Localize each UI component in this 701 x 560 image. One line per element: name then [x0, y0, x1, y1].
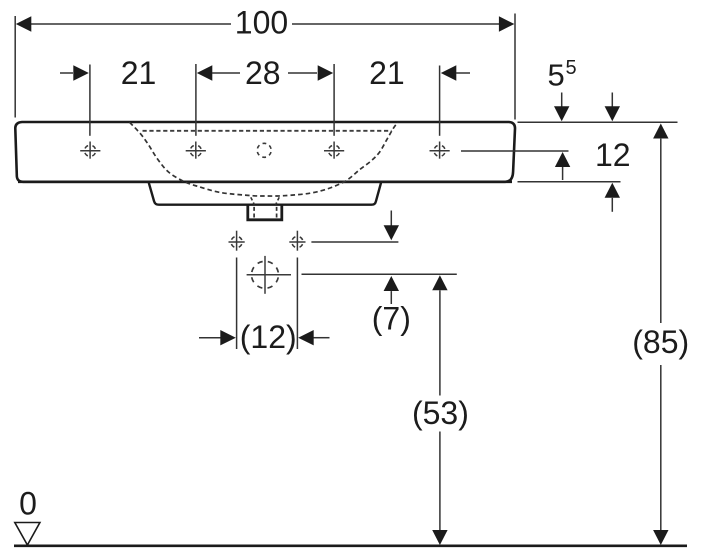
svg-text:28: 28	[245, 55, 281, 91]
svg-text:100: 100	[235, 5, 288, 41]
floor datum triangle	[15, 523, 40, 546]
dim 21 left: outside arrow	[60, 72, 73, 74]
svg-text:(7): (7)	[372, 301, 411, 337]
dimension 100: left arrowhead	[16, 16, 31, 31]
dimension 100: extension line left	[14, 16, 16, 118]
basin bottom edge (slab underside full width)	[18, 181, 512, 184]
dim 28: right arrow	[288, 72, 317, 74]
dashed drain funnel right	[276, 197, 280, 204]
svg-text:0: 0	[19, 486, 37, 522]
svg-text:(12): (12)	[240, 319, 297, 355]
dimension 100: line segments	[30, 23, 231, 25]
tap hole crosshair 1	[80, 142, 100, 159]
right reference line top of basin	[518, 121, 678, 123]
dim (85): vertical line with arrows	[653, 124, 668, 139]
bowl underside trapezoid	[149, 183, 381, 205]
line at lower fixing holes level	[311, 241, 398, 243]
right reference line hole axis	[461, 150, 569, 152]
dim 5.5: lower up arrow	[555, 152, 570, 167]
lower fixing hole crosshair right	[289, 231, 305, 251]
svg-text:21: 21	[121, 55, 157, 91]
dimension 100: right arrowhead	[499, 16, 515, 31]
center overflow dashed circle	[257, 143, 271, 157]
dim (12): extension line right	[296, 258, 298, 350]
dim (53): vertical line with arrows	[432, 275, 447, 290]
svg-text:12: 12	[595, 137, 631, 173]
dashed bowl outline curve	[130, 122, 398, 196]
dim (7): lower up arrow	[384, 276, 399, 291]
svg-text:5: 5	[566, 57, 577, 79]
svg-text:(53): (53)	[412, 395, 469, 431]
dim (12): extension line left	[236, 258, 238, 350]
svg-text:(85): (85)	[632, 324, 689, 360]
svg-text:5: 5	[548, 58, 565, 93]
svg-text:21: 21	[369, 55, 405, 91]
drain stub rectangle	[248, 205, 282, 220]
drain pipe large crosshair	[247, 256, 291, 294]
hole extension line 4	[439, 66, 441, 136]
hole extension line 1	[89, 65, 91, 136]
dim 12: lower up arrow	[605, 183, 620, 198]
floor line	[14, 544, 687, 547]
dim (12): left outside arrow	[199, 337, 221, 339]
tap hole crosshair 4	[430, 142, 450, 159]
drain stub inner dashed pipe lines	[253, 207, 255, 219]
tap hole crosshair 2	[186, 142, 206, 159]
dim (7): upper down arrow	[390, 211, 392, 227]
right reference line bottom of basin	[518, 181, 621, 183]
dashed drain funnel left	[251, 197, 255, 204]
dashed inner rim line	[143, 130, 392, 132]
lower fixing hole crosshair left	[229, 231, 245, 251]
dim 12: upper down arrow	[611, 93, 613, 109]
basin body outline	[15, 122, 515, 182]
dim 21 right: outside arrow	[441, 65, 457, 80]
dimension 100: extension line right	[514, 14, 516, 120]
tap hole crosshair 3	[324, 142, 344, 159]
dim (12): right outside arrow	[298, 330, 314, 345]
line at drain pipe level	[302, 273, 457, 275]
hole extension line 2	[195, 64, 197, 136]
hole extension line 3	[333, 64, 335, 136]
dim 5.5: upper down arrow	[561, 93, 563, 109]
dim 28: left arrow	[197, 65, 213, 80]
